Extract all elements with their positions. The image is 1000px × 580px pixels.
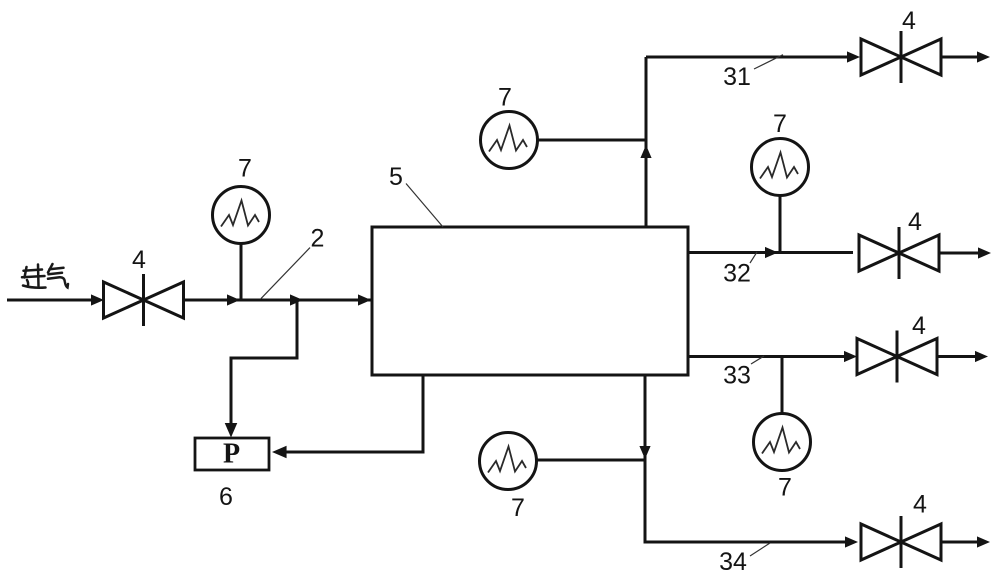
net label 32 leader — [750, 252, 757, 263]
wire: branch 31 riser — [640, 57, 651, 227]
net label 34 leader — [750, 543, 770, 556]
net label 31 leader — [754, 55, 783, 69]
gauge 7 (branch 32) — [752, 139, 809, 196]
wire: branch 33 outlet — [937, 351, 988, 362]
wire: gauge stem (top gauge 7) — [537, 139, 646, 142]
svg-text:32: 32 — [723, 260, 751, 288]
svg-text:33: 33 — [723, 362, 751, 390]
wire: branch 32 outlet — [939, 247, 991, 258]
svg-text:7: 7 — [498, 84, 512, 112]
wire: branch 32 run — [688, 247, 853, 258]
valve 4 (branch 31) — [861, 31, 941, 83]
wire: valve to vessel inlet — [184, 294, 373, 305]
wire: branch 33 run — [688, 351, 857, 362]
node 2 leader — [261, 248, 310, 299]
svg-text:7: 7 — [778, 474, 792, 502]
svg-text:7: 7 — [511, 494, 525, 522]
svg-text:34: 34 — [719, 548, 747, 576]
svg-text:7: 7 — [238, 155, 252, 183]
wire: junction drop to controller P — [225, 300, 297, 438]
valve 4 (inlet) — [104, 274, 184, 326]
wire: gauge stem (branch 33 gauge) — [781, 357, 784, 416]
wire: inlet pipe to valve 4 — [7, 294, 104, 305]
svg-text:4: 4 — [902, 7, 916, 35]
net label 33 leader — [751, 356, 764, 364]
svg-text:4: 4 — [913, 491, 927, 519]
svg-text:4: 4 — [912, 312, 926, 340]
svg-text:4: 4 — [908, 208, 922, 236]
svg-text:6: 6 — [219, 483, 233, 511]
svg-text:2: 2 — [311, 225, 325, 253]
gauge 7 (top) — [481, 112, 538, 169]
valve 4 (branch 32) — [859, 227, 939, 279]
wire: branch 34 riser and bottom run — [639, 375, 858, 548]
wire: branch 31 outlet — [941, 51, 990, 62]
wire: gauge stem (bottom gauge 7) — [537, 459, 645, 462]
valve 4 (branch 33) — [857, 331, 937, 383]
gauge 7 (inlet) — [213, 187, 270, 244]
wire: branch 34 outlet — [941, 536, 990, 547]
svg-text:5: 5 — [389, 163, 403, 191]
vessel 5 — [372, 227, 688, 375]
vessel 5 leader — [406, 184, 443, 228]
wire: branch 31 top run — [646, 51, 860, 62]
svg-text:P: P — [223, 439, 240, 470]
svg-text:4: 4 — [132, 246, 146, 274]
gauge 7 (bottom) — [480, 433, 537, 490]
valve 4 (branch 34) — [861, 516, 941, 568]
wire: vessel drain to controller P — [272, 375, 423, 458]
wire: gauge G1 stem — [240, 243, 243, 300]
controller P box — [195, 438, 269, 470]
svg-text:31: 31 — [723, 63, 751, 91]
wire: gauge stem (branch 32 gauge) — [779, 196, 782, 253]
gauge 7 (branch 33) — [754, 414, 811, 471]
svg-text:7: 7 — [773, 110, 787, 138]
inlet label 进气 — [22, 264, 68, 288]
